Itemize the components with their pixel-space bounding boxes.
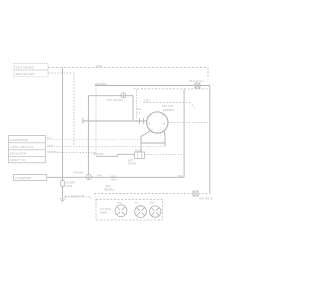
- svg-text:FUS 3: FUS 3: [135, 148, 143, 152]
- svg-text:RD/WH: RD/WH: [74, 171, 84, 175]
- junction connector J1: [86, 174, 91, 179]
- wire fuse dashed: [145, 154, 185, 156]
- svg-text:16GA: 16GA: [111, 177, 118, 181]
- wire GRN right drop: [207, 68, 209, 79]
- svg-text:1 2: 1 2: [137, 112, 141, 115]
- seat switch connector box S2: [14, 70, 48, 77]
- wire starter net: [47, 176, 184, 178]
- wire switch L loop: [163, 131, 166, 147]
- svg-text:CNTRL CBL2 W 3C: CNTRL CBL2 W 3C: [10, 145, 34, 149]
- svg-text:B: B: [149, 122, 151, 126]
- fuse F2 20A on bus: [61, 180, 65, 187]
- harness connector box P1: [96, 199, 163, 220]
- terminal tick: [82, 118, 84, 124]
- wire right vertical bus: [209, 86, 211, 194]
- svg-text:L: L: [161, 128, 163, 132]
- ground symbol GND: [60, 199, 66, 202]
- wire dashed drop to switch: [136, 89, 138, 120]
- wire RED/BLA dotted: [58, 152, 97, 154]
- svg-text:PTO SW REV: PTO SW REV: [107, 98, 124, 102]
- connector pin view C1: [115, 205, 127, 217]
- connector pin view C2: [135, 206, 147, 218]
- seat switch connector box S1: [14, 64, 48, 71]
- svg-text:GND: GND: [150, 201, 155, 204]
- connector X1 battery: [195, 83, 200, 88]
- wire GRN jumper arc: [143, 103, 195, 108]
- svg-text:KEY SW TO: KEY SW TO: [199, 197, 213, 201]
- svg-text:BLK: BLK: [47, 136, 53, 140]
- engine module box M1: [9, 135, 46, 162]
- svg-text:PTO: PTO: [117, 202, 122, 205]
- svg-text:FUSE: FUSE: [65, 184, 72, 188]
- svg-text:G: G: [151, 128, 153, 132]
- inline connector pins: [140, 118, 144, 124]
- wire main vertical bus: [62, 68, 64, 178]
- svg-text:HARN →: HARN →: [100, 210, 111, 214]
- svg-text:GRN: GRN: [105, 184, 111, 188]
- svg-text:BLK W/WHT TR: BLK W/WHT TR: [65, 195, 85, 199]
- wire key switch harness dashed: [94, 193, 210, 195]
- wire from S2 dashed: [48, 73, 74, 146]
- svg-text:RED/BLK: RED/BLK: [163, 108, 175, 112]
- wire BLK branch: [96, 154, 135, 156]
- svg-text:GRN: GRN: [96, 64, 102, 68]
- key switch pin letters: [149, 113, 166, 131]
- svg-text:M: M: [163, 122, 165, 126]
- svg-text:ALT MAIN: ALT MAIN: [100, 207, 112, 211]
- svg-text:GRN: GRN: [144, 99, 150, 103]
- wire loop bottom: [141, 142, 165, 144]
- wire dashed upper net: [134, 88, 211, 90]
- svg-text:RED/BLK: RED/BLK: [95, 82, 108, 86]
- wire switch G to fuse: [141, 131, 150, 152]
- junction connector J2: [121, 93, 126, 98]
- connector pin view C3: [150, 206, 161, 217]
- wire right mid vertical: [183, 89, 185, 177]
- svg-text:WH: WH: [97, 173, 102, 177]
- wire GRN top dashed net: [48, 67, 208, 69]
- wire vertical to key switch branch: [87, 96, 89, 174]
- svg-text:SEAT SW GRN: SEAT SW GRN: [16, 72, 35, 76]
- svg-text:REGULATOR: REGULATOR: [10, 152, 27, 156]
- wire branch PTO: [88, 96, 133, 121]
- wire BLK dotted: [53, 139, 141, 141]
- svg-text:20 AMP: 20 AMP: [128, 162, 137, 165]
- svg-text:RED/BLK: RED/BLK: [104, 188, 115, 192]
- connector X2: [193, 191, 198, 196]
- wire battery net B+: [95, 85, 210, 87]
- svg-text:16GA BLK: 16GA BLK: [93, 153, 105, 156]
- svg-text:BLK Or Grn: BLK Or Grn: [190, 79, 205, 83]
- svg-text:SAFETY SW: SAFETY SW: [10, 158, 26, 162]
- key switch U1: [147, 112, 168, 133]
- wire RED dotted: [54, 145, 166, 147]
- svg-text:B M: B M: [137, 108, 141, 111]
- svg-text:RED/BLA: RED/BLA: [47, 150, 60, 154]
- wire BLK W/WHT dashed: [65, 196, 91, 199]
- key switch terminal ticks: [147, 114, 168, 133]
- wire dashed drop left: [95, 86, 97, 156]
- svg-text:BLK: BLK: [178, 174, 183, 178]
- svg-text:SEAT SW RED: SEAT SW RED: [16, 65, 34, 69]
- wire into key switch B: [83, 120, 147, 122]
- svg-text:RED: RED: [47, 144, 54, 148]
- fuse F1 box: [135, 152, 145, 159]
- starter box A1: [13, 175, 46, 181]
- svg-text:ALTERNATOR: ALTERNATOR: [10, 138, 28, 142]
- wire key switch M dashed: [168, 122, 210, 124]
- svg-text:3A: 3A: [135, 201, 138, 204]
- svg-text:A STARTER: A STARTER: [15, 176, 32, 180]
